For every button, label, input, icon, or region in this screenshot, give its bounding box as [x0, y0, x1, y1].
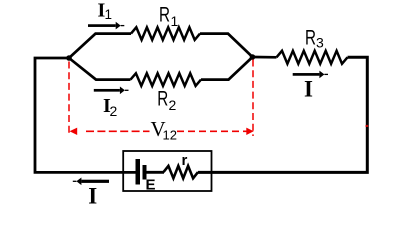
battery box [123, 151, 211, 191]
battery short plate [143, 165, 147, 180]
svg-text:I: I [304, 77, 313, 102]
svg-text:2: 2 [110, 103, 118, 119]
node 2 (right junction) [250, 54, 256, 60]
dashed V12 dimension line right part [177, 130, 247, 132]
dashed node line left [68, 62, 70, 135]
svg-text:R: R [159, 4, 170, 27]
arrow I (bottom, pointing left) [73, 178, 109, 186]
wire: upper branch right lead [200, 34, 253, 57]
svg-text:3: 3 [316, 35, 324, 51]
arrow I (right) [293, 71, 328, 79]
arrow I2 [94, 87, 129, 95]
wire: lower branch left lead [69, 58, 131, 80]
wire: R3 to right edge, down, bottom run to internal resistor [198, 57, 367, 172]
arrow I1 [88, 22, 124, 30]
V12 right arrowhead [246, 128, 253, 135]
svg-text:I: I [88, 183, 97, 208]
svg-text:r: r [182, 152, 188, 169]
wire: battery to internal resistor r [147, 171, 165, 174]
dashed node line right [252, 60, 254, 137]
svg-text:R: R [305, 27, 316, 50]
wire: outer loop left side (node 1 to left edge, down, bottom run to battery) [35, 58, 137, 172]
wire: upper branch left lead [69, 34, 131, 58]
wire: node 2 to R3 [253, 56, 277, 59]
V12 left arrowhead [70, 128, 78, 135]
resistor R1 [131, 27, 200, 40]
dashed V12 dimension line left part [86, 130, 150, 132]
svg-text:E: E [146, 177, 156, 194]
svg-text:1: 1 [105, 7, 113, 22]
svg-text:R: R [157, 88, 168, 111]
wire: lower branch right lead [201, 57, 253, 80]
resistor R2 [131, 73, 202, 86]
svg-text:2: 2 [169, 97, 177, 113]
internal resistor r [164, 166, 199, 178]
svg-text:12: 12 [163, 128, 177, 143]
battery long plate [136, 159, 141, 185]
node 1 (left junction) [66, 55, 72, 61]
stray red dash on right wire [366, 125, 369, 127]
resistor R3 [277, 51, 348, 64]
svg-text:1: 1 [171, 13, 179, 29]
